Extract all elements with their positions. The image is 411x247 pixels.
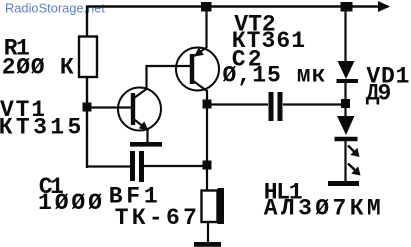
capacitor C1 (133, 151, 142, 182)
svg-text:Ø,15 мк: Ø,15 мк (223, 63, 327, 89)
wire C1 to output node (144, 165, 208, 167)
ground VT1 emitter (130, 142, 162, 147)
wire C2 left (207, 103, 268, 105)
svg-text:2ØØ К: 2ØØ К (2, 55, 75, 81)
wire rail down to VD1 (344, 6, 346, 62)
LED HL1 (335, 116, 361, 176)
resistor R1 (79, 37, 97, 78)
node VT2 emitter on rail (201, 2, 212, 12)
svg-text:КТ315: КТ315 (0, 115, 85, 141)
node base VT1 junction (83, 103, 92, 112)
wire collector VT1 to base VT2 (146, 65, 192, 67)
node VD1 top rail (341, 2, 353, 12)
wire HL1 to ground (344, 139, 346, 183)
wire base node down to C1 (87, 165, 130, 167)
wire VD1 to HL1 (344, 81, 346, 117)
capacitor C2 (271, 92, 280, 121)
diode VD1 (337, 61, 359, 81)
supply arrow + (378, 1, 390, 12)
node C2 tap (203, 100, 212, 109)
wire C2 right to VD1 node (283, 103, 346, 105)
wire R1 bottom to base node (86, 77, 88, 168)
wire BF1 to ground (207, 222, 209, 243)
node C2 right VD1 HL1 (341, 99, 350, 108)
wire VT1 emitter down (146, 129, 148, 143)
svg-text:RadioStorage.net: RadioStorage.net (5, 1, 105, 16)
svg-text:АЛ3Ø7КМ: АЛ3Ø7КМ (264, 196, 384, 222)
svg-text:1ØØØ: 1ØØØ (38, 190, 105, 216)
wire VT2 collector down to BF1 (206, 90, 208, 191)
wire base node to VT1 base (86, 106, 132, 108)
wire top supply rail (86, 5, 388, 8)
wire from rail down to R1 (86, 6, 88, 37)
svg-text:ТК-67: ТК-67 (115, 205, 201, 231)
transistor VT1 (118, 88, 161, 131)
svg-text:Д9: Д9 (366, 81, 391, 107)
ground HL1 (328, 181, 359, 186)
transistor VT2 (176, 48, 219, 92)
node BF1 top (203, 161, 212, 170)
wire VT1 collector up (145, 65, 147, 89)
sounder BF1 (202, 188, 225, 224)
ground BF1 (194, 242, 221, 247)
wire VT2 emitter to rail (205, 6, 207, 48)
